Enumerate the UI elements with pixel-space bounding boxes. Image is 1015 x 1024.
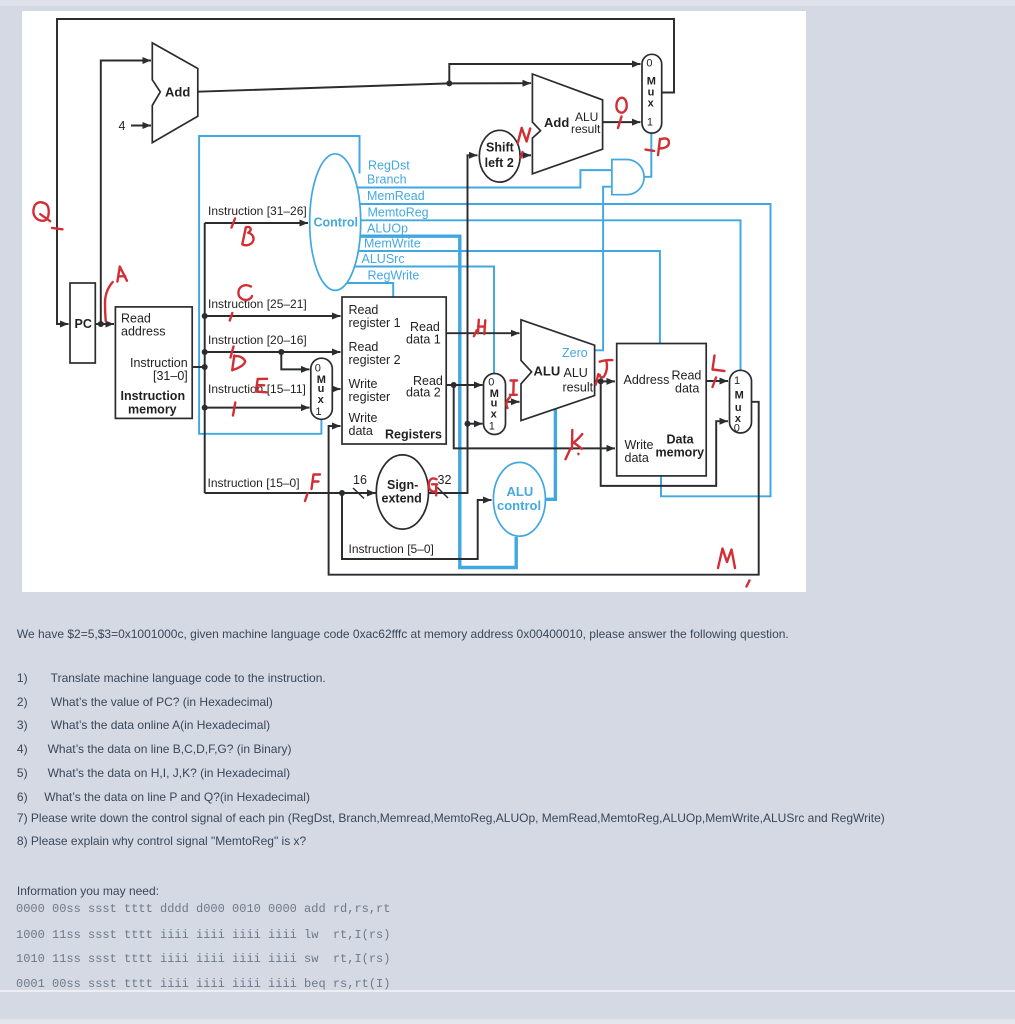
wire MemRead: control to data memory bottom bbox=[351, 204, 771, 496]
svg-text:0: 0 bbox=[315, 362, 321, 374]
wire ALU result bypass to right mux input 0 bbox=[601, 381, 728, 486]
svg-text:Write: Write bbox=[349, 411, 378, 425]
svg-text:Instruction: Instruction bbox=[130, 356, 188, 370]
svg-text:Instruction: Instruction bbox=[121, 389, 186, 403]
junction bus row 25-21 bbox=[202, 313, 208, 319]
wire ALUSrc: control to ALUSrc mux top bbox=[337, 267, 494, 375]
svg-text:Zero: Zero bbox=[562, 346, 588, 360]
svg-text:x: x bbox=[491, 409, 498, 421]
svg-text:M: M bbox=[735, 389, 744, 401]
PC register box bbox=[70, 283, 95, 363]
svg-text:PC: PC bbox=[75, 317, 92, 331]
svg-text:data: data bbox=[675, 382, 699, 396]
junction ALU result bbox=[598, 378, 604, 384]
wire Instruction[20-16] branch to mux input 0 bbox=[281, 352, 309, 369]
svg-text:Instruction [5–0]: Instruction [5–0] bbox=[349, 542, 434, 556]
svg-text:data: data bbox=[625, 451, 649, 465]
annotation letter O (node O) with tick bbox=[616, 98, 626, 113]
junction PC+4 bbox=[446, 80, 452, 86]
annotation letter D (node D) with tick bbox=[231, 347, 234, 358]
wire Instruction[15-11] to mux input 1 bbox=[205, 407, 310, 409]
svg-text:1: 1 bbox=[489, 420, 495, 432]
wire write-back: right mux output to registers write data (line M) bbox=[329, 402, 759, 575]
adder Add#2 (branch target) bbox=[532, 74, 602, 174]
svg-text:MemtoReg: MemtoReg bbox=[368, 206, 429, 220]
annotation letter P (node P) with dash bbox=[658, 138, 669, 155]
svg-text:Instruction [31–26]: Instruction [31–26] bbox=[208, 204, 307, 218]
junction immediate bbox=[465, 421, 471, 427]
annotation letter Q (node Q) bbox=[33, 202, 50, 221]
wire Read data 2 to ALUSrc mux input 0 bbox=[446, 384, 482, 386]
svg-text:Data: Data bbox=[667, 433, 695, 447]
svg-text:16: 16 bbox=[353, 473, 367, 487]
svg-text:Write: Write bbox=[349, 377, 378, 391]
svg-text:data: data bbox=[349, 424, 373, 438]
svg-text:data 2: data 2 bbox=[406, 386, 441, 400]
annotation letter L (node L) with tick bbox=[713, 356, 725, 372]
annotation letter A (node A) bbox=[117, 267, 127, 282]
wire RegDst: control to write-register mux bottom bbox=[199, 136, 359, 434]
wire Instruction[25-21] to Read register 1 bbox=[205, 315, 341, 317]
svg-text:Add: Add bbox=[544, 115, 569, 130]
wire MemWrite: control to data memory top bbox=[342, 251, 660, 345]
junction bus row 20-16 bbox=[202, 349, 208, 355]
wire Read data 2 down to memory write data (line K) bbox=[454, 385, 615, 448]
wire memory read data to right mux input 1 (line L) bbox=[706, 380, 728, 382]
svg-text:Read: Read bbox=[349, 303, 379, 317]
data memory box bbox=[617, 344, 707, 476]
svg-text:Read: Read bbox=[672, 369, 702, 383]
svg-text:x: x bbox=[318, 394, 325, 406]
wire Instruction[5-0] to ALU control bbox=[342, 493, 492, 559]
junction bus row 15-11 bbox=[202, 405, 208, 411]
annotation letter K (node K) with tick bbox=[572, 430, 582, 449]
wire write-register mux output to Registers bbox=[332, 388, 340, 390]
svg-text:Write: Write bbox=[625, 438, 654, 452]
svg-text:0: 0 bbox=[646, 58, 652, 70]
svg-text:1: 1 bbox=[734, 375, 740, 387]
junction rt branch bbox=[278, 349, 284, 355]
wire immediate to ALUSrc mux input 1 bbox=[468, 423, 483, 425]
svg-text:left 2: left 2 bbox=[485, 156, 514, 170]
annotation letter N (node N) with tick bbox=[518, 128, 530, 143]
svg-text:4: 4 bbox=[119, 119, 126, 133]
wire PC output to instruction memory read address bbox=[95, 323, 114, 325]
svg-text:Instruction [25–21]: Instruction [25–21] bbox=[208, 297, 307, 311]
svg-text:ALUOp: ALUOp bbox=[367, 222, 408, 236]
svg-text:address: address bbox=[121, 325, 165, 339]
junction instr 15-0 bbox=[339, 490, 345, 496]
svg-text:ALU: ALU bbox=[564, 366, 588, 380]
annotation letter M (node M) with tick bbox=[718, 549, 735, 569]
junction read data 2 bbox=[451, 382, 457, 388]
wire shift-left-2 output to branch adder bbox=[519, 154, 531, 156]
mux top (PC source) bbox=[642, 54, 662, 133]
svg-text:ALU: ALU bbox=[507, 484, 534, 499]
white diagram panel bbox=[22, 11, 806, 592]
annotation letter I (node I) with tick bbox=[510, 381, 517, 395]
svg-text:memory: memory bbox=[656, 446, 705, 460]
svg-text:Shift: Shift bbox=[486, 140, 515, 154]
question text block bbox=[17, 627, 789, 641]
annotation letter G (node G) bbox=[429, 478, 437, 495]
svg-text:x: x bbox=[648, 98, 655, 110]
ellipse Control unit bbox=[310, 154, 361, 291]
svg-text:1: 1 bbox=[647, 117, 653, 129]
svg-text:MemWrite: MemWrite bbox=[364, 237, 421, 251]
wire ALU result to memory address (line J) bbox=[595, 380, 615, 382]
svg-text:Address: Address bbox=[624, 373, 670, 387]
wire PC+4 up to top mux input 0 bbox=[449, 64, 640, 83]
svg-text:result: result bbox=[563, 381, 594, 395]
svg-text:RegDst: RegDst bbox=[368, 159, 410, 173]
wire PC feedback loop from top mux output to PC input bbox=[57, 19, 674, 324]
svg-text:register 1: register 1 bbox=[349, 316, 401, 330]
svg-text:0: 0 bbox=[488, 377, 494, 389]
mux write register bbox=[311, 358, 333, 419]
wire Instruction[15-0] to sign extend bbox=[205, 492, 376, 494]
svg-text:Registers: Registers bbox=[385, 428, 442, 442]
wire sign-extend output up to shift-left-2 (line G) bbox=[429, 155, 478, 493]
wire RegWrite: control to registers top bbox=[330, 283, 393, 298]
svg-text:result: result bbox=[571, 122, 601, 136]
wire Instruction[20-16] to Read register 2 bbox=[205, 351, 341, 353]
wire PC+4 to branch adder top input bbox=[449, 82, 531, 84]
annotation letter F (node F) with tick bbox=[312, 475, 321, 490]
svg-text:Read: Read bbox=[349, 340, 379, 354]
wire ALUSrc mux output to ALU bbox=[506, 401, 520, 403]
svg-text:ALUSrc: ALUSrc bbox=[362, 252, 405, 266]
svg-text:0: 0 bbox=[734, 423, 740, 435]
wire instruction bus vertical bbox=[204, 223, 206, 493]
wire PC value up to Add#1 bbox=[101, 61, 151, 325]
svg-text:ALU: ALU bbox=[534, 364, 561, 379]
annotation letter C (node C) with tick bbox=[238, 285, 252, 300]
registers box bbox=[342, 297, 446, 444]
wire Add#1 output (PC+4), slightly slanted bbox=[198, 83, 449, 91]
wire AND output to top mux select bbox=[644, 134, 651, 177]
annotation letter B (node B) with tick bbox=[232, 219, 236, 228]
svg-text:register 2: register 2 bbox=[349, 353, 401, 367]
wire constant 4 into Add#1 bbox=[131, 125, 151, 127]
svg-text:32: 32 bbox=[438, 473, 452, 487]
svg-text:Instruction [15–0]: Instruction [15–0] bbox=[208, 476, 300, 490]
svg-text:register: register bbox=[349, 390, 391, 404]
bus width slash 32 bbox=[437, 487, 448, 498]
wire ALUOp: control to ALU control (2-bit, thick) bbox=[346, 236, 516, 567]
wire Branch: control to AND gate top input bbox=[356, 170, 612, 187]
instruction memory box bbox=[115, 307, 192, 419]
svg-text:Instruction [20–16]: Instruction [20–16] bbox=[208, 333, 307, 347]
wire Read data 1 to ALU (line H) bbox=[446, 332, 519, 334]
annotation letter H (node H) with tick bbox=[478, 320, 485, 334]
wire MemtoReg: control to right mux top bbox=[349, 220, 741, 371]
AND gate (branch) bbox=[612, 160, 644, 195]
ellipse shift left 2 bbox=[479, 130, 520, 182]
junction bus instruction out bbox=[202, 364, 208, 370]
svg-text:Add: Add bbox=[165, 85, 190, 100]
svg-text:Branch: Branch bbox=[367, 173, 407, 187]
ellipse sign extend bbox=[376, 455, 428, 529]
svg-text:Control: Control bbox=[314, 216, 358, 230]
mux write-back (MemtoReg) bbox=[730, 370, 752, 433]
ellipse ALU control bbox=[493, 462, 545, 536]
annotation letter J (node J) with tick bbox=[600, 360, 613, 377]
svg-text:MemRead: MemRead bbox=[367, 189, 425, 203]
svg-text:extend: extend bbox=[382, 492, 422, 506]
wire Instruction[31-26] to Control bbox=[205, 222, 308, 224]
bus width slash 16 bbox=[353, 488, 364, 499]
svg-text:RegWrite: RegWrite bbox=[368, 269, 420, 283]
svg-text:data 1: data 1 bbox=[406, 333, 441, 347]
svg-text:control: control bbox=[497, 498, 541, 513]
ALU main bbox=[521, 320, 595, 421]
mux ALUSrc bbox=[484, 374, 506, 435]
svg-text:Read: Read bbox=[121, 312, 151, 326]
wire instruction memory output to bus bbox=[192, 366, 205, 368]
svg-text:1: 1 bbox=[315, 406, 321, 418]
wire Zero: ALU zero output to AND gate bottom input bbox=[595, 187, 612, 351]
adder Add#1 (PC+4) bbox=[152, 43, 198, 143]
svg-text:[31–0]: [31–0] bbox=[153, 369, 188, 383]
svg-text:Sign-: Sign- bbox=[387, 478, 418, 492]
wire ALU control output to ALU (thick) bbox=[545, 409, 555, 500]
junction PC output bbox=[98, 321, 104, 327]
svg-text:memory: memory bbox=[128, 403, 177, 417]
annotation letter E (node E) with tick bbox=[256, 379, 267, 393]
wire branch adder result to top mux input 1 (line O) bbox=[603, 121, 641, 123]
